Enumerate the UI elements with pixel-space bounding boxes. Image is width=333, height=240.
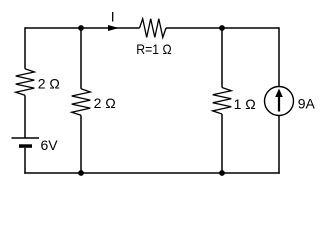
- resistor 1 ohm: [213, 88, 232, 115]
- wire branch B lower: [80, 115, 82, 173]
- resistor 2 ohm (middle branch): [72, 89, 91, 116]
- wire left vertical upper: [24, 27, 26, 69]
- svg-text:9A: 9A: [298, 96, 316, 112]
- resistor R1 (R=1 ohm, horizontal): [140, 19, 167, 38]
- wire branch B upper: [80, 28, 82, 89]
- wire top-left segment: [25, 27, 140, 29]
- wire bottom: [24, 172, 279, 174]
- wire branch C upper: [221, 28, 223, 88]
- current source arrowhead: [275, 89, 283, 98]
- svg-text:I: I: [111, 9, 115, 25]
- battery V1 short plate: [19, 144, 32, 148]
- svg-text:R=1 Ω: R=1 Ω: [136, 41, 171, 57]
- wire left vertical middle: [24, 95, 26, 138]
- wire top-right segment: [166, 27, 279, 29]
- node dot top C: [219, 25, 225, 31]
- wire right vertical lower: [278, 116, 280, 174]
- current source I1 circle: [265, 87, 294, 116]
- wire branch C lower: [221, 114, 223, 173]
- battery V1 long plate: [12, 137, 40, 139]
- current source arrow shaft: [278, 96, 280, 112]
- node dot bottom B: [78, 170, 84, 176]
- node dot top B: [78, 25, 84, 31]
- resistor 2 ohm (left branch): [16, 69, 35, 96]
- wire left vertical lower: [24, 148, 26, 174]
- svg-text:6V: 6V: [41, 137, 59, 153]
- current arrow on top wire: [108, 25, 119, 31]
- node dot bottom C: [219, 170, 225, 176]
- wire right vertical upper: [278, 27, 280, 86]
- svg-text:2 Ω: 2 Ω: [94, 95, 116, 111]
- svg-text:2 Ω: 2 Ω: [38, 76, 60, 92]
- svg-text:1 Ω: 1 Ω: [234, 96, 256, 112]
